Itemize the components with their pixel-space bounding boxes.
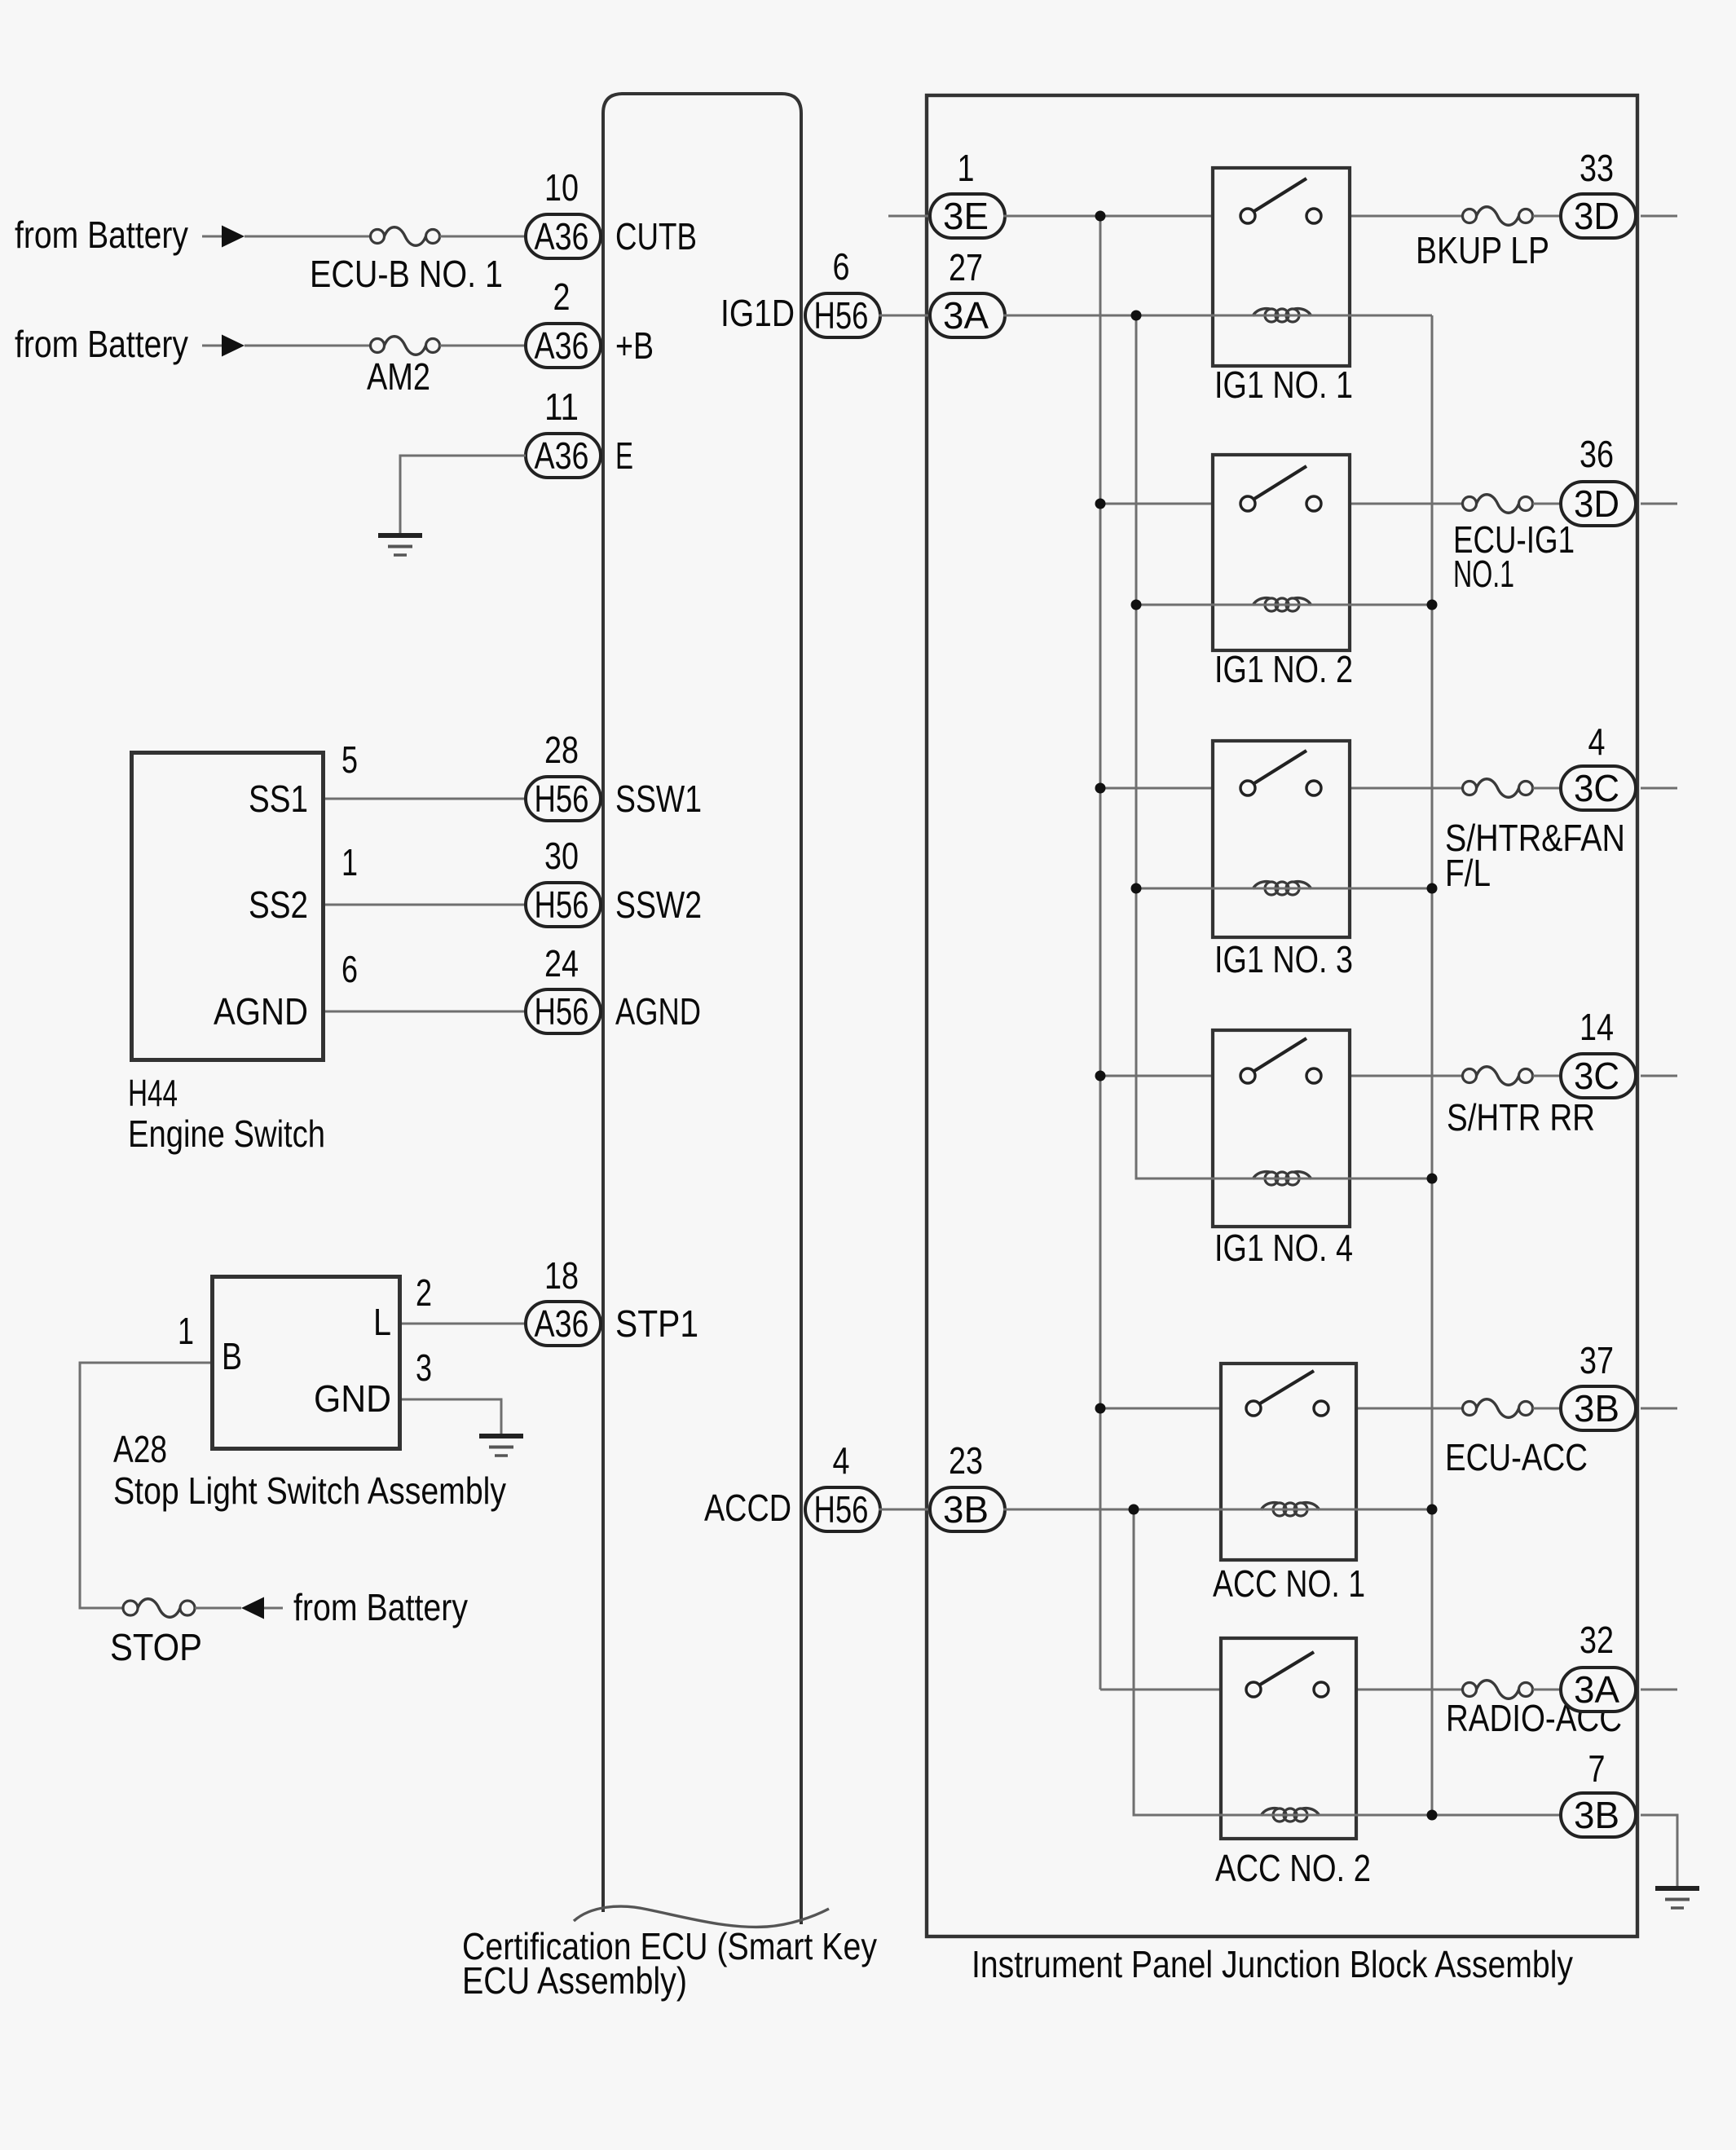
svg-text:27: 27 — [949, 246, 983, 289]
wire: bus to relay IG1 NO. 3 coil — [1136, 888, 1211, 890]
svg-text:ECU-B NO. 1: ECU-B NO. 1 — [310, 253, 503, 295]
junction dot (3E bus, row ACC NO. 1) — [1095, 1403, 1106, 1414]
label: A28 / Stop Light Switch Assembly — [113, 1428, 506, 1512]
wire: coil return bus to 3B pin 7 — [1431, 315, 1434, 1815]
wire: relay ACC NO. 1 to fuse ECU-ACC — [1358, 1408, 1463, 1410]
wire: H56 ACCD to 3B pin 23 — [879, 1509, 930, 1511]
connector 3D (pin 33) — [1561, 194, 1636, 238]
svg-text:H56: H56 — [814, 294, 869, 337]
connector 3B (pin 23) — [930, 1487, 1005, 1531]
svg-text:IG1 NO. 1: IG1 NO. 1 — [1214, 363, 1353, 406]
fuse ECU-B NO. 1 — [371, 227, 440, 246]
wire: 3E to relay IG1 NO. 1 switch — [1003, 215, 1211, 218]
wire: L pin to A36 pin 18 — [402, 1323, 526, 1325]
wire: fuse BKUP LP to 3D pin 33 — [1533, 215, 1562, 218]
svg-text:4: 4 — [833, 1439, 850, 1482]
node: from Battery (+B feed) — [15, 323, 222, 365]
wire: coil 3 return to bus — [1351, 888, 1432, 890]
svg-text:H56: H56 — [814, 1488, 869, 1531]
connector A36 (+B) — [526, 324, 601, 368]
wire: relay IG1 NO. 3 to fuse S/HTR&FAN F/L — [1351, 787, 1463, 790]
svg-text:SS1: SS1 — [249, 778, 308, 820]
wire: relay IG1 NO. 4 to fuse S/HTR RR — [1351, 1075, 1463, 1077]
svg-text:3D: 3D — [1574, 482, 1619, 525]
wire: fuse to 3D pin 36 — [1533, 503, 1562, 505]
wire: 3D pin 33 external stub — [1641, 215, 1677, 218]
svg-text:ECU-ACC: ECU-ACC — [1445, 1436, 1588, 1478]
svg-text:IG1 NO. 4: IG1 NO. 4 — [1214, 1227, 1353, 1269]
svg-text:4: 4 — [1588, 720, 1606, 763]
svg-text:S/HTR RR: S/HTR RR — [1447, 1096, 1595, 1139]
svg-text:3C: 3C — [1574, 1055, 1619, 1097]
fuse AM2 — [371, 337, 440, 355]
relay IG1 NO. 3 — [1213, 741, 1350, 937]
wire: 3C pin 4 external stub — [1641, 787, 1677, 790]
wire: SS1 to H56 pin 28 — [325, 798, 526, 800]
svg-text:28: 28 — [544, 729, 579, 771]
wire: battery arrow to fuse AM2 — [245, 345, 371, 347]
svg-text:14: 14 — [1580, 1006, 1614, 1048]
svg-text:CUTB: CUTB — [615, 215, 697, 258]
connector H56 (AGND) — [526, 989, 601, 1033]
svg-text:from Battery: from Battery — [293, 1586, 468, 1628]
connector H56 (SSW1) — [526, 777, 601, 821]
ECU bottom break (wavy line) — [574, 1906, 829, 1927]
junction dot (ACCD bus, coil ACC NO. 1) — [1129, 1505, 1139, 1515]
svg-text:37: 37 — [1580, 1339, 1614, 1381]
svg-text:32: 32 — [1580, 1619, 1614, 1661]
svg-text:A28: A28 — [113, 1428, 167, 1470]
svg-text:6: 6 — [833, 245, 850, 288]
svg-text:1: 1 — [958, 147, 975, 189]
svg-text:+B: +B — [615, 324, 654, 367]
connector 3A (pin 27) — [930, 293, 1005, 337]
svg-text:AGND: AGND — [615, 990, 701, 1033]
component A28 Stop Light Switch Assembly box — [213, 1277, 400, 1449]
svg-text:10: 10 — [544, 166, 579, 209]
label: ECU-IG1 NO.1 — [1453, 518, 1575, 595]
svg-text:3A: 3A — [943, 294, 989, 337]
wire: coil ACC NO. 2 return to 3B pin 7 — [1358, 1814, 1561, 1817]
svg-text:A36: A36 — [535, 434, 589, 477]
svg-text:6: 6 — [341, 948, 358, 990]
wire: bus to relay IG1 NO. 4 switch — [1100, 1075, 1211, 1077]
svg-text:H56: H56 — [535, 883, 589, 926]
svg-text:30: 30 — [544, 835, 579, 877]
wire: 3C pin 14 external stub — [1641, 1075, 1677, 1077]
wire: fuse AM2 to connector A36 pin 2 — [440, 345, 527, 347]
ground symbol (E pin) — [378, 535, 422, 555]
fuse S/HTR&FAN F/L — [1463, 779, 1533, 798]
ground symbol (stop light switch) — [479, 1436, 523, 1456]
wire: E pin to ground — [400, 456, 526, 535]
junction dot (coil return bus, coil 4) — [1427, 1174, 1438, 1184]
svg-text:33: 33 — [1580, 147, 1614, 189]
wire: 3B pin 7 to ground — [1641, 1815, 1677, 1888]
wire: bus to relay IG1 NO. 2 coil — [1136, 604, 1211, 606]
svg-text:ACC NO. 1: ACC NO. 1 — [1213, 1562, 1365, 1605]
svg-text:GND: GND — [314, 1377, 391, 1420]
wire: coil 2 return to bus — [1351, 604, 1432, 606]
relay IG1 NO. 2 — [1213, 455, 1350, 650]
svg-text:ACC NO. 2: ACC NO. 2 — [1215, 1847, 1371, 1889]
connector 3B (pin 7) — [1561, 1793, 1636, 1837]
connector 3E (pin 1) — [930, 194, 1005, 238]
junction dot (3A bus, coil 3) — [1131, 883, 1142, 894]
wire: 3A pin 32 external stub — [1641, 1689, 1677, 1691]
svg-text:IG1 NO. 3: IG1 NO. 3 — [1214, 938, 1353, 980]
label: Certification ECU (Smart Key ECU Assembly) — [462, 1925, 877, 2002]
wire: coil 1 return to bus — [1351, 315, 1432, 317]
wire: fuse to 3B pin 37 — [1533, 1408, 1562, 1410]
wire: bus from 3B pin 23 to ACC NO. 2 coil — [1134, 1509, 1219, 1815]
fuse STOP — [123, 1599, 195, 1618]
connector 3A (pin 32) — [1561, 1668, 1636, 1712]
svg-text:SSW2: SSW2 — [615, 883, 702, 926]
Instrument Panel Junction Block Assembly outline — [927, 95, 1637, 1936]
wire: 3D pin 36 external stub — [1641, 503, 1677, 505]
wire: coil ACC NO. 2 through relay — [1219, 1814, 1358, 1817]
wire: 3A to relay IG1 NO. 1 coil — [1003, 315, 1211, 317]
wire: fuse to 3C pin 14 — [1533, 1075, 1562, 1077]
connector H56 (SSW2) — [526, 883, 601, 927]
svg-text:3C: 3C — [1574, 767, 1619, 809]
junction dot (coil return bus, coil 2) — [1427, 600, 1438, 610]
node: from Battery (STOP feed) — [264, 1586, 468, 1628]
svg-text:from Battery: from Battery — [15, 214, 188, 256]
svg-text:1: 1 — [341, 841, 358, 883]
ECU box: Certification ECU (Smart Key ECU Assembly) outline — [603, 94, 801, 1924]
junction dot (coil return bus, coil ACC NO. 1) — [1427, 1505, 1438, 1515]
svg-text:A36: A36 — [535, 215, 589, 258]
junction dot (coil return bus, 3B pin 7) — [1427, 1810, 1438, 1821]
wire: coil ACC NO. 1 through relay — [1219, 1509, 1358, 1511]
connector A36 (STP1) — [526, 1302, 601, 1346]
wire: AGND to H56 pin 24 — [325, 1011, 526, 1013]
svg-text:from Battery: from Battery — [15, 323, 188, 365]
connector 3B (pin 37) — [1561, 1386, 1636, 1430]
svg-text:1: 1 — [178, 1310, 194, 1352]
svg-text:E: E — [615, 434, 633, 477]
wire: bus to relay ACC NO. 2 switch — [1100, 1689, 1219, 1691]
svg-text:3B: 3B — [943, 1488, 989, 1531]
wire: coil ACC NO. 1 return to bus — [1358, 1509, 1432, 1511]
wire: fuse to 3C pin 4 — [1533, 787, 1562, 790]
wire: 3B pin 23 to relay ACC NO. 1 coil — [1003, 1509, 1219, 1511]
connector 3C (pin 4) — [1561, 766, 1636, 810]
wire: B pin to STOP fuse — [80, 1363, 210, 1608]
connector A36 (E) — [526, 434, 601, 478]
svg-text:36: 36 — [1580, 433, 1614, 475]
wire: relay IG1 NO. 2 to fuse ECU-IG1 NO.1 — [1351, 503, 1463, 505]
connector 3D (pin 36) — [1561, 482, 1636, 526]
label: S/HTR&FAN F/L — [1445, 817, 1625, 894]
relay IG1 NO. 1 — [1213, 168, 1350, 366]
connector H56 (ACCD) — [805, 1487, 880, 1531]
junction dot (3A bus, coil 1) — [1131, 311, 1142, 321]
svg-text:AM2: AM2 — [367, 355, 430, 398]
wire: H56 IG1D to 3A pin 27 — [879, 315, 930, 317]
junction dot (3E bus, row IG1 NO. 4) — [1095, 1071, 1106, 1082]
svg-text:F/L: F/L — [1445, 852, 1491, 894]
svg-text:H56: H56 — [535, 990, 589, 1033]
fuse S/HTR RR — [1463, 1067, 1533, 1086]
svg-text:A36: A36 — [535, 1302, 589, 1345]
arrow from Battery (STOP feed) — [241, 1597, 264, 1619]
svg-text:STOP: STOP — [110, 1626, 202, 1668]
wire: relay IG1 NO. 1 to fuse BKUP LP — [1351, 215, 1463, 218]
wire: bus to relay IG1 NO. 3 switch — [1100, 787, 1211, 790]
svg-text:H44: H44 — [128, 1072, 178, 1114]
svg-text:7: 7 — [1588, 1747, 1606, 1790]
wire: coil 2 through relay — [1211, 604, 1351, 606]
wire: bus from 3A down the IG1 relay coils — [1136, 315, 1211, 1179]
svg-text:B: B — [222, 1335, 242, 1377]
relay ACC NO. 1 — [1221, 1364, 1356, 1560]
svg-text:STP1: STP1 — [615, 1302, 698, 1345]
svg-text:IG1D: IG1D — [720, 292, 795, 334]
fuse RADIO-ACC — [1463, 1681, 1533, 1699]
svg-text:11: 11 — [544, 386, 579, 428]
wire: fuse to connector A36 pin 10 — [440, 236, 527, 238]
connector H56 (IG1D) — [805, 293, 880, 337]
wire: stub into 3E pin 1 — [888, 215, 930, 218]
svg-text:ACCD: ACCD — [704, 1487, 791, 1529]
wire: STOP fuse to battery arrow — [195, 1607, 241, 1610]
svg-text:23: 23 — [949, 1439, 983, 1482]
svg-text:SS2: SS2 — [249, 883, 308, 926]
svg-text:Engine Switch: Engine Switch — [128, 1112, 325, 1155]
svg-text:2: 2 — [553, 275, 571, 318]
wire: bus to relay IG1 NO. 2 switch — [1100, 503, 1211, 505]
junction dot (coil return bus, coil 3) — [1427, 883, 1438, 894]
fuse ECU-ACC — [1463, 1399, 1533, 1418]
wire: bus from 3E down the relay switch inputs — [1099, 216, 1102, 1690]
wire: battery arrow to fuse ECU-B NO. 1 — [245, 236, 371, 238]
component H44 Engine Switch box — [132, 753, 324, 1060]
arrow into CUTB wire — [222, 226, 245, 248]
svg-text:IG1 NO. 2: IG1 NO. 2 — [1214, 648, 1353, 690]
wire: SS2 to H56 pin 30 — [325, 904, 526, 906]
svg-text:L: L — [373, 1301, 391, 1343]
fuse ECU-IG1 NO.1 — [1463, 495, 1533, 513]
arrow into +B wire — [222, 335, 245, 357]
svg-text:Stop Light Switch Assembly: Stop Light Switch Assembly — [113, 1469, 506, 1512]
fuse BKUP LP — [1463, 207, 1533, 226]
wire: coil 4 return to bus — [1351, 1178, 1432, 1180]
wire: 3B pin 37 external stub — [1641, 1408, 1677, 1410]
svg-text:3B: 3B — [1574, 1387, 1619, 1430]
connector 3C (pin 14) — [1561, 1054, 1636, 1098]
junction dot (3E bus, row IG1 NO. 2) — [1095, 499, 1106, 509]
wire: coil 4 through relay — [1211, 1178, 1351, 1180]
svg-text:2: 2 — [416, 1271, 432, 1314]
svg-text:3: 3 — [416, 1346, 432, 1389]
wire: relay ACC NO. 2 to fuse RADIO-ACC — [1358, 1689, 1463, 1691]
wire: coil 3 through relay — [1211, 888, 1351, 890]
svg-text:BKUP LP: BKUP LP — [1416, 229, 1549, 271]
label: H44 / Engine Switch — [128, 1072, 325, 1155]
relay ACC NO. 2 — [1221, 1638, 1356, 1839]
svg-text:3A: 3A — [1574, 1668, 1619, 1711]
ground symbol (junction block) — [1655, 1888, 1699, 1908]
junction dot (3E bus, row IG1 NO. 3) — [1095, 783, 1106, 794]
svg-text:Instrument Panel Junction Bloc: Instrument Panel Junction Block Assembly — [972, 1943, 1573, 1985]
wire: GND pin to ground — [402, 1399, 501, 1436]
svg-text:SSW1: SSW1 — [615, 778, 702, 820]
connector A36 (CUTB) — [526, 214, 601, 258]
svg-text:H56: H56 — [535, 778, 589, 820]
junction dot (3A bus, coil 2) — [1131, 600, 1142, 610]
wire: coil 1 through relay — [1211, 315, 1351, 317]
wire: bus to relay ACC NO. 1 switch — [1100, 1408, 1219, 1410]
junction dot (3E bus, row 1) — [1095, 211, 1106, 222]
svg-text:ECU Assembly): ECU Assembly) — [462, 1959, 687, 2002]
svg-text:3B: 3B — [1574, 1794, 1619, 1836]
svg-text:NO.1: NO.1 — [1453, 553, 1514, 595]
svg-text:AGND: AGND — [214, 990, 308, 1033]
svg-text:A36: A36 — [535, 324, 589, 367]
svg-text:3E: 3E — [943, 195, 989, 237]
svg-text:18: 18 — [544, 1254, 579, 1297]
node: from Battery (CUTB feed) — [15, 214, 222, 256]
svg-text:5: 5 — [341, 738, 358, 781]
svg-text:24: 24 — [544, 942, 579, 985]
svg-text:3D: 3D — [1574, 195, 1619, 237]
wire: fuse to 3A pin 32 — [1533, 1689, 1562, 1691]
relay IG1 NO. 4 — [1213, 1030, 1350, 1227]
